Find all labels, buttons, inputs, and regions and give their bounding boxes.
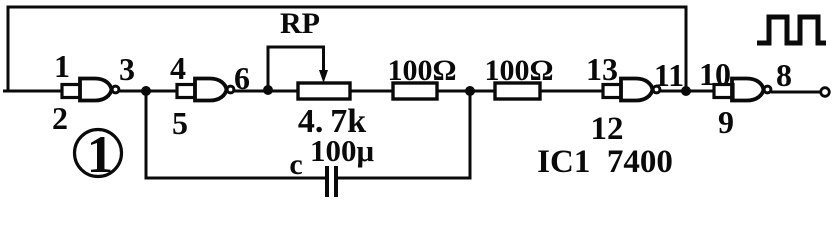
NAND gate U1C (pins 13,12 in / 11 out) — [603, 79, 660, 101]
square wave output symbol — [757, 17, 826, 43]
svg-text:10: 10 — [699, 56, 731, 92]
svg-text:1: 1 — [87, 126, 114, 184]
wire: gate U1A output to node 3 — [119, 90, 177, 93]
svg-text:100Ω: 100Ω — [484, 54, 553, 87]
capacitor C 100u plates — [327, 166, 336, 197]
junction dot between R1 and R2 — [465, 86, 475, 96]
wire: node 3 down to bottom loop — [146, 91, 325, 178]
output terminal circle — [821, 88, 830, 97]
svg-text:100μ: 100μ — [310, 133, 375, 168]
resistor R2 100ohm body — [495, 83, 540, 99]
wire: RP wiper loop — [268, 47, 324, 90]
wire: gate U1D output 8 to terminal — [771, 91, 821, 94]
wire: gate U1C output to node 11 — [660, 90, 714, 93]
RP wiper arrowhead — [319, 70, 328, 83]
svg-text:13: 13 — [586, 51, 618, 87]
svg-text:IC1 7400: IC1 7400 — [537, 144, 673, 180]
svg-text:100Ω: 100Ω — [387, 54, 456, 87]
wire: R2 to gate U1C input — [540, 90, 603, 93]
node 3 junction dot — [141, 86, 151, 96]
node 6 junction dot — [263, 85, 273, 95]
svg-text:4: 4 — [170, 50, 186, 86]
node 11 junction dot — [681, 86, 691, 96]
svg-text:9: 9 — [718, 104, 734, 140]
svg-text:5: 5 — [172, 105, 188, 141]
svg-text:6: 6 — [234, 60, 250, 96]
svg-text:RP: RP — [280, 7, 320, 40]
NAND gate U1B (pins 4,5 in / 6 out) — [177, 79, 234, 101]
svg-text:3: 3 — [119, 51, 135, 87]
wire: feedback from node 11 over the top to gate U1A input — [3, 7, 686, 91]
wire: RP to R1 — [350, 90, 393, 93]
svg-text:2: 2 — [52, 100, 68, 136]
svg-text:12: 12 — [591, 111, 624, 147]
wire: R1 to R2 — [437, 90, 495, 93]
NAND gate U1A (pins 1,2 in / 3 out) — [62, 79, 119, 101]
svg-text:c: c — [289, 148, 302, 181]
potentiometer RP 4.7k body — [298, 83, 350, 99]
wire: main signal rail left segment — [8, 90, 62, 93]
wire: gate U1B output to node 6 / RP left — [234, 90, 298, 93]
wire: junction down to bottom loop right side — [338, 91, 470, 178]
svg-text:11: 11 — [654, 57, 684, 93]
NAND gate U1D (pins 10,9 in / 8 out) — [714, 79, 771, 101]
svg-text:1: 1 — [54, 48, 70, 84]
figure number circle — [75, 130, 122, 177]
resistor R1 100ohm body — [393, 83, 437, 99]
svg-text:8: 8 — [776, 57, 792, 93]
